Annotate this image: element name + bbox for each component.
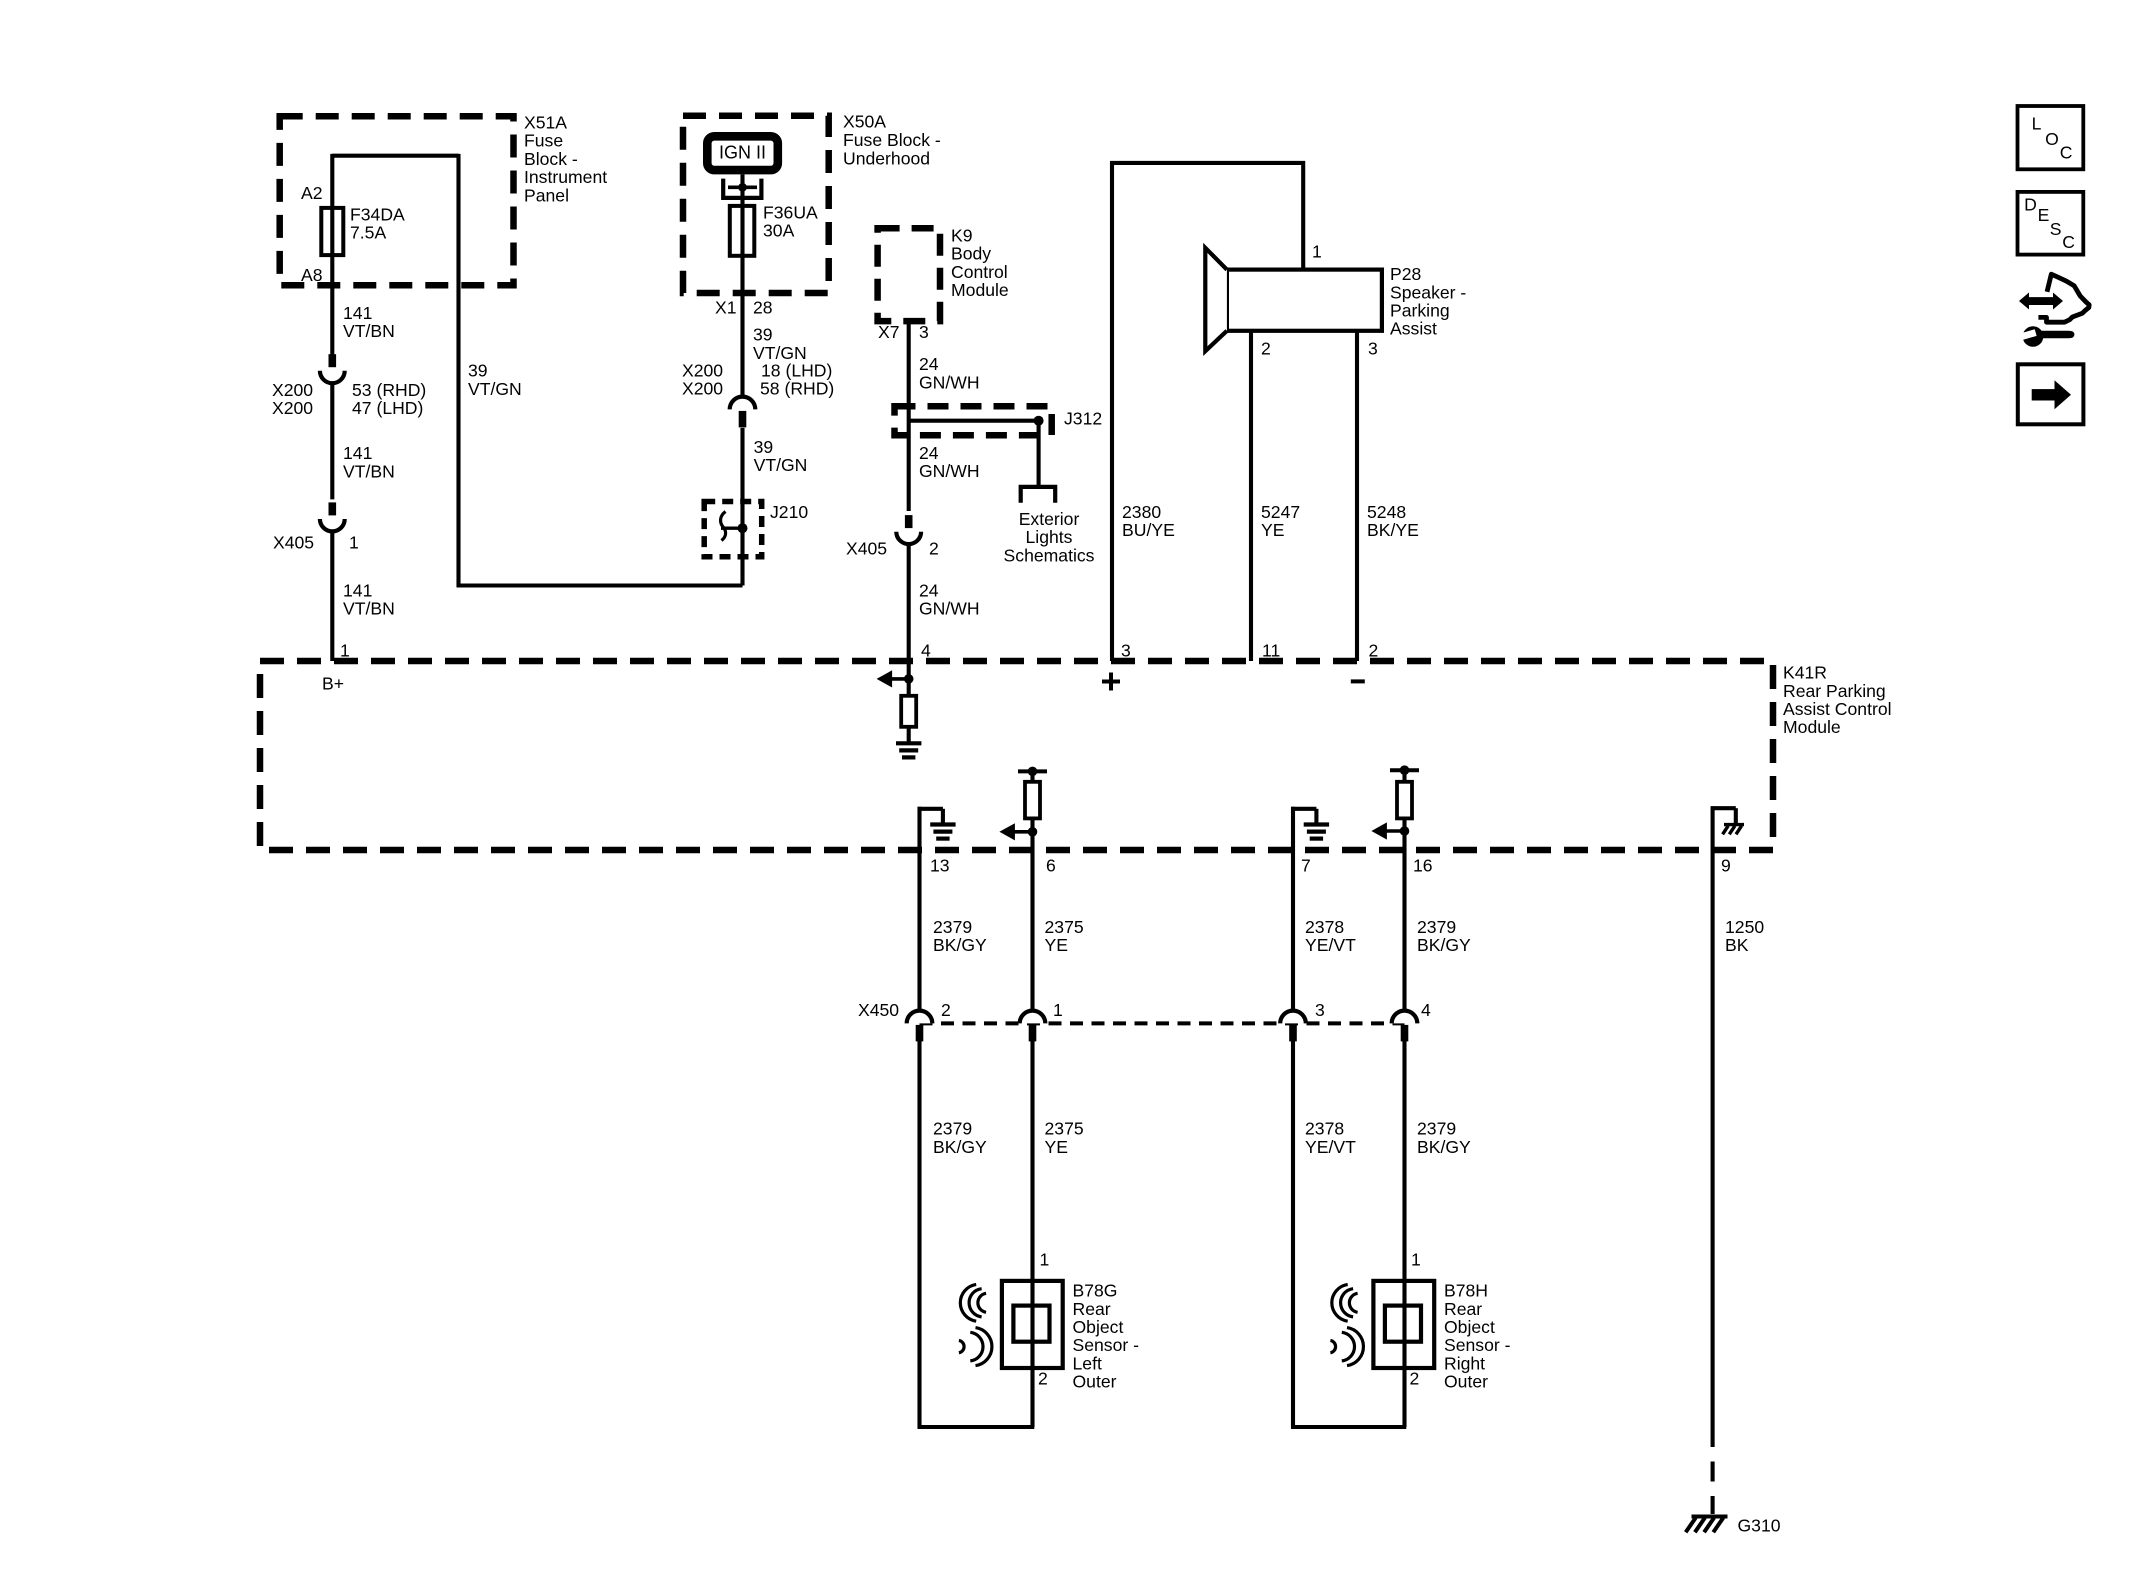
K41R pin 7 internal ground hook — [1291, 807, 1316, 850]
wire 2375 YE (X450-1 through B78G) — [1030, 1041, 1034, 1427]
svg-text:Right: Right — [1444, 1353, 1485, 1373]
svg-text:X450: X450 — [858, 1000, 899, 1020]
connector X405 (middle, cup) — [896, 515, 921, 544]
sensor B78G sound waves (upper) — [960, 1284, 986, 1321]
fuse holder bracket under IGN II — [723, 179, 761, 198]
wire 39 VT/GN segment 1 (X1-28 down to X200) — [740, 256, 744, 397]
K41R pin 4 internal wire — [907, 661, 911, 696]
svg-text:2379: 2379 — [933, 1119, 972, 1139]
svg-text:S: S — [2050, 219, 2062, 239]
fuse F34DA value label — [350, 205, 405, 243]
svg-text:X200: X200 — [272, 398, 313, 418]
svg-text:Assist Control: Assist Control — [1783, 699, 1892, 719]
svg-text:C: C — [2062, 232, 2075, 252]
svg-text:2378: 2378 — [1305, 917, 1344, 937]
svg-text:3: 3 — [1121, 641, 1131, 661]
wire 1250 BK dashed tail — [1711, 1427, 1715, 1514]
node B+ label — [322, 674, 344, 694]
connector X450 dashed gang line — [920, 1021, 1405, 1025]
svg-text:39: 39 — [468, 361, 488, 381]
wire resistor to internal ground — [907, 727, 911, 744]
svg-text:1: 1 — [349, 532, 359, 552]
svg-text:F36UA: F36UA — [763, 203, 818, 223]
wire 2379 BK/GY (X450-2 to B78G pin 2) — [918, 1041, 1035, 1429]
svg-text:Rear: Rear — [1444, 1299, 1482, 1319]
ground (K41R internal, pin 13) — [930, 825, 955, 839]
connector X200 (right, dome) — [730, 397, 756, 428]
connector X450 pin 4 (dome) — [1392, 1011, 1418, 1042]
icon box next-page arrow — [2018, 364, 2084, 424]
splice J210 tap symbol — [721, 512, 743, 541]
svg-text:1: 1 — [1312, 242, 1322, 262]
svg-text:13: 13 — [930, 856, 950, 876]
wire label 24 GN/WH (1) — [919, 354, 980, 392]
wire - J312 internal tap to Exterior Lights — [909, 419, 1039, 423]
sensor B78H pin 1 label — [1411, 1250, 1421, 1270]
icon data-link connector (car outline) — [2041, 274, 2089, 322]
off-page connector fork (to Exterior Lights Schematics) — [1021, 487, 1055, 503]
connector X200 labels (left) — [272, 380, 426, 418]
wire label 2378 YE/VT (lower) — [1305, 1119, 1356, 1157]
wire label 39 VT/GN (2) — [754, 437, 808, 475]
K41R pin 16 internal wire — [1402, 770, 1406, 782]
wire label 39 VT/GN (X51A side) — [468, 361, 522, 399]
svg-text:2375: 2375 — [1045, 1119, 1084, 1139]
svg-text:24: 24 — [919, 354, 939, 374]
svg-text:Outer: Outer — [1073, 1372, 1117, 1392]
svg-text:F34DA: F34DA — [350, 205, 405, 225]
sensor B78G sound waves (lower) — [959, 1328, 992, 1366]
connector X200 labels (right) — [682, 361, 834, 399]
svg-text:5248: 5248 — [1367, 502, 1406, 522]
svg-text:BK/GY: BK/GY — [933, 935, 987, 955]
fuse block X50A - Underhood (dashed outline) — [683, 116, 829, 293]
svg-text:2379: 2379 — [933, 917, 972, 937]
K41R pin 11 label — [1262, 641, 1280, 661]
svg-text:VT/BN: VT/BN — [343, 461, 395, 481]
svg-text:G310: G310 — [1738, 1516, 1781, 1536]
B78G label — [1073, 1281, 1140, 1392]
svg-text:5247: 5247 — [1261, 502, 1300, 522]
node - (return) symbol — [1351, 679, 1365, 683]
P28 label — [1390, 264, 1466, 339]
sensor B78G pin 1 label — [1040, 1250, 1050, 1270]
svg-text:Underhood: Underhood — [843, 149, 930, 169]
svg-text:47 (LHD): 47 (LHD) — [352, 398, 423, 418]
speaker P28 - Parking Assist symbol — [1205, 248, 1382, 351]
K41R pin 9 internal ground hook — [1711, 806, 1736, 850]
svg-text:K9: K9 — [951, 225, 973, 245]
G310 label — [1738, 1516, 1781, 1536]
speaker pin 1 label — [1312, 242, 1322, 262]
svg-text:Sensor -: Sensor - — [1444, 1335, 1511, 1355]
wire label 2379 BK/GY (lower) — [933, 1119, 987, 1157]
ground (K41R internal, pin 4) — [896, 743, 921, 757]
wire 141 VT/BN segment 1 (A8 down to X200) — [330, 255, 334, 355]
svg-text:Assist: Assist — [1390, 319, 1437, 339]
svg-text:BK/GY: BK/GY — [933, 1137, 987, 1157]
svg-text:3: 3 — [1368, 339, 1378, 359]
K41R pin 6 arrow (signal) — [999, 823, 1032, 840]
wire 2379 BK/GY (X450-4 through B78H) — [1402, 1041, 1406, 1427]
icon wrench — [2018, 326, 2075, 347]
svg-text:4: 4 — [1421, 1000, 1431, 1020]
wire label 2375 YE (upper) — [1045, 917, 1084, 955]
speaker pin 2 label — [1261, 339, 1271, 359]
svg-text:Object: Object — [1073, 1317, 1124, 1337]
X450 label — [858, 1000, 899, 1020]
wire 141 VT/BN segment 3 (X405 to K41R pin 1) — [330, 531, 334, 661]
wire label 141 VT/BN (2) — [343, 443, 395, 481]
svg-text:P28: P28 — [1390, 264, 1422, 284]
svg-text:3: 3 — [1315, 1000, 1325, 1020]
K41R pin 3 label — [1121, 641, 1131, 661]
svg-text:Outer: Outer — [1444, 1372, 1488, 1392]
svg-text:X51A: X51A — [524, 113, 567, 133]
svg-text:2379: 2379 — [1417, 1119, 1456, 1139]
splice J210 (dashed box) — [704, 502, 762, 557]
sensor B78G outer body — [1002, 1281, 1063, 1368]
wire label 2379 BK/GY (upper) — [933, 917, 987, 955]
wire label 2379 BK/GY (lower right) — [1417, 1119, 1471, 1157]
svg-text:B78H: B78H — [1444, 1281, 1488, 1301]
svg-text:Object: Object — [1444, 1317, 1495, 1337]
K41R pin 7 label — [1301, 856, 1311, 876]
svg-text:Instrument: Instrument — [524, 167, 607, 187]
wire 141 VT/BN segment 2 (X200 to X405) — [330, 383, 334, 499]
node + (supply) symbol — [1102, 673, 1120, 691]
wire 5247 YE (speaker pin 2 to K41R pin 11) — [1249, 331, 1253, 661]
svg-text:BK: BK — [1725, 935, 1749, 955]
svg-text:O: O — [2045, 129, 2059, 149]
wire label 2380 BU/YE — [1122, 502, 1175, 540]
svg-text:3: 3 — [919, 322, 929, 342]
X51A label — [524, 113, 607, 206]
svg-text:1: 1 — [1040, 1250, 1050, 1270]
svg-text:28: 28 — [753, 297, 773, 317]
connector X405 pin 2 labels (middle) — [846, 539, 939, 559]
svg-text:Rear: Rear — [1073, 1299, 1111, 1319]
wire - branch down from J312 — [1037, 421, 1041, 487]
sensor B78H outer body — [1373, 1281, 1434, 1368]
svg-text:2: 2 — [1261, 339, 1271, 359]
svg-text:Control: Control — [951, 262, 1008, 282]
wire 2379 BK/GY (pin 13 to X450 pin 2) — [917, 850, 921, 1011]
connector X200 (left, cup) — [320, 354, 345, 383]
svg-text:1: 1 — [340, 641, 350, 661]
svg-text:24: 24 — [919, 580, 939, 600]
svg-text:B78G: B78G — [1073, 1281, 1118, 1301]
svg-text:2: 2 — [929, 539, 939, 559]
svg-text:IGN II: IGN II — [719, 143, 766, 163]
wire 24 GN/WH segment 1 (K9 X7-3 down) — [907, 321, 911, 511]
wire 39 VT/GN from X51A (down and right to J210) — [457, 154, 743, 587]
svg-text:16: 16 — [1413, 856, 1433, 876]
svg-text:A2: A2 — [301, 183, 323, 203]
sensor B78H inner element — [1385, 1306, 1421, 1342]
X450 pin 4 label — [1421, 1000, 1431, 1020]
splice J312 (dashed box) — [895, 406, 1052, 435]
K41R pin 6 junction dot — [1028, 827, 1038, 837]
connector X405 (left, cup) — [320, 502, 345, 531]
svg-text:GN/WH: GN/WH — [919, 599, 980, 619]
fuse F36UA 30A — [730, 206, 755, 256]
svg-text:Speaker -: Speaker - — [1390, 282, 1466, 302]
svg-text:Sensor -: Sensor - — [1073, 1335, 1140, 1355]
connector X450 pin 3 (dome) — [1280, 1011, 1306, 1042]
svg-text:BU/YE: BU/YE — [1122, 520, 1175, 540]
connector X450 pin 1 (dome) — [1020, 1011, 1046, 1042]
svg-text:X405: X405 — [846, 539, 887, 559]
connector X450 pin 2 (dome) — [907, 1011, 933, 1042]
icon box DESC — [2018, 192, 2084, 255]
svg-text:24: 24 — [919, 443, 939, 463]
splice J312 junction dot — [1034, 416, 1044, 426]
K41R pin 16 arrow (signal) — [1371, 822, 1404, 839]
K41R pin 13 internal ground hook — [918, 807, 943, 850]
sensor B78G inner element — [1013, 1306, 1049, 1342]
svg-text:7.5A: 7.5A — [350, 223, 386, 243]
svg-text:X7: X7 — [878, 322, 900, 342]
K41R pin 6 internal wire — [1030, 771, 1034, 781]
K41R pin 16 label — [1413, 856, 1433, 876]
svg-text:D: D — [2024, 194, 2037, 214]
J210 label — [770, 502, 808, 522]
X450 pin 1 label — [1053, 1000, 1063, 1020]
wire label 24 GN/WH (3) — [919, 580, 980, 618]
sensor B78H sound waves (upper) — [1332, 1284, 1358, 1321]
svg-text:58 (RHD): 58 (RHD) — [760, 378, 834, 398]
svg-text:Fuse: Fuse — [524, 131, 563, 151]
svg-text:7: 7 — [1301, 856, 1311, 876]
sensor B78H sound waves (lower) — [1330, 1328, 1363, 1366]
K41R pin 4 label — [921, 641, 931, 661]
svg-text:VT/BN: VT/BN — [343, 321, 395, 341]
K41R pin 4 junction dot — [904, 674, 914, 684]
K41R pin 16 terminal dot — [1400, 765, 1410, 775]
svg-text:VT/GN: VT/GN — [468, 379, 522, 399]
module K41R Rear Parking Assist Control Module (dashed outline) — [260, 661, 1773, 850]
resistor (K41R pin 16 internal) — [1397, 782, 1412, 819]
svg-text:A8: A8 — [301, 265, 323, 285]
K41R pin 6 label — [1046, 856, 1056, 876]
svg-text:BK/GY: BK/GY — [1417, 1137, 1471, 1157]
svg-text:2380: 2380 — [1122, 502, 1161, 522]
K9 label — [951, 225, 1009, 300]
ground (K41R internal, pin 7) — [1304, 825, 1329, 839]
K41R pin 1 label — [340, 641, 350, 661]
svg-text:YE: YE — [1045, 935, 1068, 955]
wire label 141 VT/BN (1) — [343, 303, 395, 341]
module K9 Body Control Module (dashed outline) — [878, 228, 940, 321]
svg-text:X1: X1 — [715, 297, 737, 317]
svg-text:Exterior: Exterior — [1019, 509, 1080, 529]
fuse F36UA value label — [763, 203, 818, 241]
K41R pin 4 arrow (signal out) — [877, 670, 909, 687]
wire - X51A internal bus (A2 top horizontal) — [332, 154, 458, 158]
J312 label — [1064, 409, 1102, 429]
wire label 2375 YE (lower) — [1045, 1119, 1084, 1157]
wire label 5247 YE — [1261, 502, 1300, 540]
svg-text:Body: Body — [951, 244, 991, 264]
svg-text:Panel: Panel — [524, 185, 569, 205]
svg-text:2: 2 — [1038, 1368, 1048, 1388]
chassis ground (K41R internal, pin 9) — [1723, 825, 1744, 835]
wire - IGN II to fuse F36UA — [740, 174, 744, 206]
svg-text:VT/BN: VT/BN — [343, 599, 395, 619]
X450 pin 2 label — [941, 1000, 951, 1020]
svg-text:2378: 2378 — [1305, 1119, 1344, 1139]
splice J210 junction dot — [738, 523, 748, 533]
svg-text:J210: J210 — [770, 502, 808, 522]
fuse F34DA 7.5A — [321, 208, 343, 255]
svg-text:X50A: X50A — [843, 111, 886, 131]
svg-text:YE/VT: YE/VT — [1305, 1137, 1356, 1157]
svg-text:Module: Module — [951, 280, 1009, 300]
wire 2380 BU/YE top run (K41R pin 3 up and right to speaker pin 1) — [1110, 161, 1305, 661]
sensor B78H pin 2 label — [1410, 1368, 1420, 1388]
svg-text:J312: J312 — [1064, 409, 1102, 429]
svg-text:141: 141 — [343, 580, 372, 600]
svg-text:1: 1 — [1411, 1250, 1421, 1270]
K41R pin 16 wire to X450 — [1402, 818, 1406, 1010]
svg-text:2: 2 — [1410, 1368, 1420, 1388]
wire label 24 GN/WH (2) — [919, 443, 980, 481]
K41R pin 6 terminal dot — [1028, 767, 1038, 777]
svg-text:YE/VT: YE/VT — [1305, 935, 1356, 955]
power feed IGN II symbol — [707, 136, 778, 170]
wire label 5248 BK/YE — [1367, 502, 1419, 540]
wire 2378 YE/VT (X450-3 to B78H pin 2) — [1291, 1041, 1406, 1429]
svg-text:1: 1 — [1053, 1000, 1063, 1020]
K41R label — [1783, 663, 1892, 738]
svg-text:E: E — [2038, 205, 2050, 225]
svg-text:141: 141 — [343, 303, 372, 323]
svg-text:2: 2 — [941, 1000, 951, 1020]
svg-text:X405: X405 — [273, 532, 314, 552]
K41R pin 6 internal terminal bar — [1018, 769, 1047, 773]
icon box LOC — [2018, 106, 2084, 169]
connector X405 pin 1 labels (left) — [273, 532, 359, 552]
sensor B78G pin 2 label — [1038, 1368, 1048, 1388]
K41R pin 2 label — [1369, 641, 1379, 661]
svg-text:C: C — [2060, 143, 2073, 163]
svg-text:6: 6 — [1046, 856, 1056, 876]
wire label 2378 YE/VT (upper) — [1305, 917, 1356, 955]
wire label 141 VT/BN (3) — [343, 580, 395, 618]
svg-text:X200: X200 — [682, 378, 723, 398]
svg-text:YE: YE — [1045, 1137, 1068, 1157]
wire label 1250 BK — [1725, 917, 1764, 955]
K41R pin 6 wire to X450 — [1030, 818, 1034, 1010]
svg-text:BK/YE: BK/YE — [1367, 520, 1419, 540]
svg-text:Module: Module — [1783, 717, 1841, 737]
connector X7 pin 3 labels — [878, 322, 929, 342]
resistor (K41R pin 4 internal) — [901, 696, 916, 727]
svg-text:2: 2 — [1369, 641, 1379, 661]
resistor (K41R pin 6 internal) — [1025, 782, 1040, 819]
svg-text:YE: YE — [1261, 520, 1284, 540]
pin A8 label — [301, 265, 323, 285]
svg-text:Lights: Lights — [1026, 527, 1073, 547]
svg-text:30A: 30A — [763, 221, 795, 241]
svg-text:4: 4 — [921, 641, 931, 661]
svg-text:Parking: Parking — [1390, 301, 1450, 321]
wire label 39 VT/GN (1) — [753, 325, 807, 363]
K41R pin 16 internal terminal bar — [1390, 768, 1419, 772]
svg-text:GN/WH: GN/WH — [919, 461, 980, 481]
fuse block X51A - Instrument Panel (dashed outline) — [280, 116, 514, 285]
svg-text:1250: 1250 — [1725, 917, 1764, 937]
svg-text:11: 11 — [1262, 641, 1280, 661]
pin A2 label — [301, 183, 323, 203]
svg-text:Left: Left — [1073, 1353, 1102, 1373]
icon double arrow — [2019, 293, 2063, 310]
connector X1 pin 28 labels — [715, 297, 773, 317]
wire - A2 to fuse F34DA — [330, 154, 334, 208]
B78H label — [1444, 1281, 1511, 1392]
wire 1250 BK (K41R pin 9 to G310) — [1711, 850, 1715, 1427]
K41R pin 16 junction dot — [1400, 826, 1410, 836]
speaker pin 3 label — [1368, 339, 1378, 359]
svg-text:BK/GY: BK/GY — [1417, 935, 1471, 955]
svg-text:9: 9 — [1721, 856, 1731, 876]
wire label 2379 BK/GY (upper right) — [1417, 917, 1471, 955]
K41R pin 9 label — [1721, 856, 1731, 876]
svg-text:Schematics: Schematics — [1004, 545, 1095, 565]
svg-text:2375: 2375 — [1045, 917, 1084, 937]
svg-text:VT/GN: VT/GN — [754, 455, 808, 475]
Exterior Lights Schematics label — [1004, 509, 1095, 565]
svg-text:39: 39 — [754, 437, 774, 457]
ground G310 (chassis) — [1686, 1517, 1728, 1533]
svg-text:Rear Parking: Rear Parking — [1783, 681, 1886, 701]
svg-text:2379: 2379 — [1417, 917, 1456, 937]
svg-text:Fuse Block -: Fuse Block - — [843, 130, 941, 150]
svg-text:Block -: Block - — [524, 149, 578, 169]
wire 24 GN/WH segment 3 (X405 to K41R pin 4) — [907, 544, 911, 661]
svg-text:K41R: K41R — [1783, 663, 1827, 683]
K41R pin 13 label — [930, 856, 950, 876]
X450 pin 3 label — [1315, 1000, 1325, 1020]
svg-text:L: L — [2032, 114, 2042, 134]
wire 39 VT/GN segment 2 (X200 to J210) — [740, 428, 744, 586]
svg-text:39: 39 — [753, 325, 773, 345]
wire 5248 BK/YE (speaker pin 3 to K41R pin 2) — [1355, 331, 1359, 661]
svg-text:141: 141 — [343, 443, 372, 463]
svg-text:GN/WH: GN/WH — [919, 372, 980, 392]
wire 2378 YE/VT (pin 7 to X450 pin 3) — [1291, 850, 1295, 1011]
svg-text:B+: B+ — [322, 674, 344, 694]
X50A label — [843, 111, 941, 168]
